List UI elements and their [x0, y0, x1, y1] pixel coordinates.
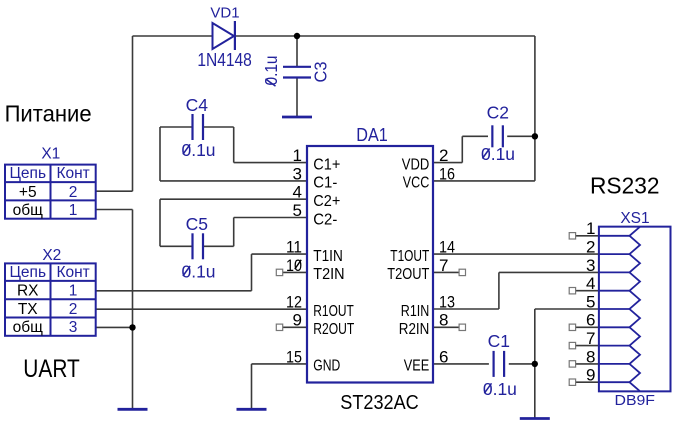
svg-text:8: 8: [439, 311, 448, 330]
svg-text:3: 3: [586, 256, 595, 275]
svg-text:C1+: C1+: [313, 156, 340, 173]
svg-text:R2IN: R2IN: [399, 321, 430, 338]
svg-text:C1-: C1-: [313, 175, 337, 192]
svg-text:10: 10: [286, 256, 302, 275]
svg-text:15: 15: [286, 347, 302, 366]
svg-text:2: 2: [586, 238, 595, 257]
svg-text:5: 5: [586, 292, 595, 311]
svg-text:DA1: DA1: [356, 125, 388, 145]
svg-text:общ: общ: [13, 319, 43, 336]
svg-text:Конт: Конт: [56, 165, 89, 182]
svg-text:T1IN: T1IN: [313, 248, 343, 265]
svg-text:5: 5: [293, 201, 302, 220]
svg-text:2: 2: [69, 301, 78, 318]
svg-text:RX: RX: [17, 283, 39, 300]
svg-text:C2+: C2+: [313, 193, 340, 210]
svg-text:4: 4: [586, 274, 595, 293]
svg-text:C4: C4: [186, 95, 209, 115]
svg-text:C2: C2: [487, 102, 509, 122]
svg-text:X2: X2: [42, 247, 61, 264]
svg-text:UART: UART: [23, 355, 80, 383]
svg-text:14: 14: [439, 238, 455, 257]
svg-text:6: 6: [439, 347, 448, 366]
svg-text:R1OUT: R1OUT: [313, 303, 354, 320]
svg-text:4: 4: [293, 183, 302, 202]
svg-text:12: 12: [286, 292, 302, 311]
svg-text:Питание: Питание: [5, 101, 92, 127]
svg-text:X1: X1: [41, 146, 60, 163]
svg-text:0.1u: 0.1u: [261, 56, 281, 86]
svg-text:T2IN: T2IN: [313, 266, 344, 283]
svg-text:6: 6: [586, 311, 595, 330]
svg-text:VCC: VCC: [403, 175, 430, 192]
svg-text:2: 2: [69, 184, 78, 201]
svg-text:1: 1: [586, 219, 595, 238]
svg-text:1N4148: 1N4148: [197, 50, 252, 70]
svg-text:1: 1: [69, 202, 78, 219]
svg-text:Цепь: Цепь: [9, 264, 46, 281]
svg-text:16: 16: [439, 164, 455, 183]
svg-text:GND: GND: [313, 358, 340, 375]
svg-text:11: 11: [286, 238, 302, 257]
svg-text:8: 8: [586, 347, 595, 366]
svg-text:1: 1: [293, 146, 302, 165]
svg-text:R2OUT: R2OUT: [313, 321, 354, 338]
svg-text:13: 13: [439, 292, 455, 311]
svg-text:3: 3: [293, 164, 302, 183]
svg-text:R1IN: R1IN: [401, 303, 430, 320]
svg-text:VDD: VDD: [402, 156, 430, 173]
svg-text:T2OUT: T2OUT: [387, 266, 429, 283]
svg-text:VD1: VD1: [210, 5, 239, 22]
svg-text:VEE: VEE: [404, 358, 430, 375]
svg-text:DB9F: DB9F: [615, 393, 656, 409]
svg-text:C5: C5: [186, 214, 208, 234]
svg-text:9: 9: [293, 311, 302, 330]
svg-text:C1: C1: [488, 331, 510, 351]
svg-text:C3: C3: [311, 62, 331, 83]
svg-text:общ: общ: [13, 202, 43, 219]
svg-text:9: 9: [586, 366, 595, 385]
svg-text:TX: TX: [18, 301, 38, 318]
svg-text:+5: +5: [19, 184, 37, 201]
svg-text:2: 2: [439, 146, 448, 165]
svg-text:T1OUT: T1OUT: [390, 248, 429, 265]
svg-text:Цепь: Цепь: [9, 165, 46, 182]
svg-text:RS232: RS232: [590, 173, 660, 199]
svg-text:XS1: XS1: [620, 210, 649, 227]
svg-text:ST232AC: ST232AC: [340, 392, 419, 414]
svg-text:C2-: C2-: [313, 211, 337, 228]
svg-text:3: 3: [69, 319, 78, 336]
svg-text:Конт: Конт: [56, 264, 89, 281]
svg-text:1: 1: [69, 283, 78, 300]
svg-text:7: 7: [439, 256, 448, 275]
svg-text:7: 7: [586, 329, 595, 348]
